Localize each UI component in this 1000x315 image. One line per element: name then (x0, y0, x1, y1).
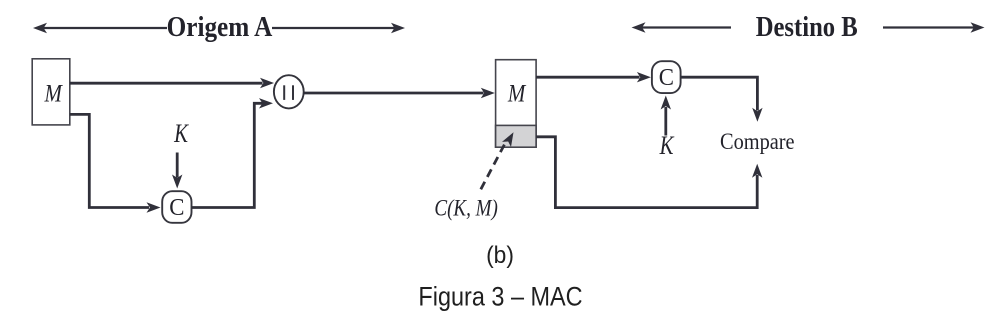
MAC gray section of M destino (496, 125, 536, 147)
box M origem (32, 59, 70, 125)
svg-text:Destino B: Destino B (756, 10, 858, 42)
arrow K down into C origem (172, 153, 182, 189)
header Origem A double arrow right segment (272, 27, 397, 29)
svg-text:M: M (44, 80, 64, 108)
arrow K up into C destino (661, 96, 671, 136)
wire concat circle to M destino (304, 88, 495, 98)
header Destino B double arrow left segment (632, 22, 985, 32)
header Origem A double arrow left segment (33, 23, 405, 33)
svg-text:C: C (659, 64, 674, 91)
svg-text:M: M (507, 80, 527, 108)
svg-text:C(K, M): C(K, M) (434, 195, 497, 221)
wire MAC section to Compare (536, 137, 762, 208)
svg-text:(b): (b) (486, 242, 514, 269)
concatenation circle || (274, 75, 304, 108)
dashed pointer to MAC value (481, 130, 518, 190)
svg-text:K: K (173, 120, 189, 149)
svg-text:Figura 3 – MAC: Figura 3 – MAC (418, 282, 582, 312)
svg-text:Compare: Compare (720, 129, 795, 154)
wire M to concat circle (70, 78, 274, 88)
box M destino (496, 60, 536, 148)
box C destino (MAC function) (652, 61, 681, 93)
header Destino B double arrow right segment (883, 26, 977, 28)
wire M down to C origem (70, 114, 161, 212)
wire C origem up to concat circle (192, 98, 274, 207)
wire C destino down to Compare (681, 77, 763, 122)
box C origem (MAC function) (162, 191, 191, 223)
wire M destino to C destino (536, 72, 651, 82)
concatenation bars (284, 85, 293, 100)
svg-text:K: K (659, 132, 675, 161)
svg-text:C: C (169, 194, 184, 221)
svg-text:Origem A: Origem A (167, 11, 273, 43)
